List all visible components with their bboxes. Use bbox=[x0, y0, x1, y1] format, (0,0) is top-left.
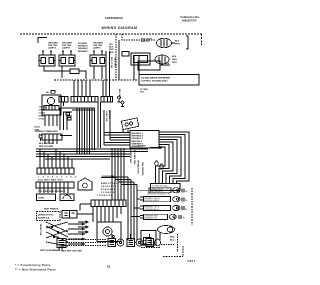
timer connector strip bbox=[42, 134, 62, 144]
harness dashed leaders bbox=[66, 240, 107, 246]
wires to door area bbox=[98, 102, 101, 148]
svg-text:TO MTR: TO MTR bbox=[138, 146, 146, 148]
svg-text:ORG: ORG bbox=[172, 59, 177, 61]
svg-text:CTRL: CTRL bbox=[34, 130, 40, 132]
svg-text:BLU: BLU bbox=[170, 240, 175, 242]
bus drop wires bbox=[40, 149, 72, 168]
door harness connector pair 2 bbox=[127, 234, 143, 247]
mullion dashed rail bbox=[54, 79, 137, 81]
right lateral bundle bbox=[128, 177, 137, 240]
svg-text:K T 4 2 5 8 6 3: K T 4 2 5 8 6 3 bbox=[101, 188, 116, 191]
svg-text:WHT/BLK VIO: WHT/BLK VIO bbox=[137, 160, 139, 174]
svg-text:L K D G L N T 1: L K D G L N T 1 bbox=[101, 186, 117, 188]
harness connector box right bbox=[151, 184, 181, 191]
svg-text:BLK WHT RED ORG: BLK WHT RED ORG bbox=[38, 180, 63, 182]
svg-text:RED/YEL 4: RED/YEL 4 bbox=[132, 140, 144, 143]
dashed wire below valve bbox=[141, 247, 160, 249]
splice block left bbox=[59, 97, 68, 107]
terminal strip 2 bbox=[36, 182, 74, 188]
junction arrow marks bbox=[78, 221, 88, 233]
fresh food lamp assembly bbox=[90, 51, 106, 66]
svg-text:0801: 0801 bbox=[188, 260, 196, 263]
below-chain tick labels bbox=[62, 251, 82, 253]
svg-text:SUPER ICE: SUPER ICE bbox=[38, 218, 50, 220]
svg-text:FRS26ZRFDA: FRS26ZRFDA bbox=[105, 16, 123, 20]
condenser fan motor bbox=[155, 55, 169, 64]
svg-text:2 WHT: 2 WHT bbox=[39, 110, 46, 112]
svg-text:SELECTOR: SELECTOR bbox=[39, 224, 41, 236]
svg-text:LAMP A: LAMP A bbox=[48, 47, 56, 50]
start relay housing bbox=[78, 178, 92, 190]
svg-text:BLK WHT: BLK WHT bbox=[118, 89, 120, 99]
water valve assembly bbox=[158, 226, 175, 241]
defrost heater box bbox=[131, 53, 150, 65]
defrost timer assembly bbox=[42, 95, 61, 110]
evaporator fan motor bbox=[157, 38, 176, 48]
terminal board bbox=[130, 131, 159, 149]
svg-text:RED/YEL BLK: RED/YEL BLK bbox=[150, 191, 163, 193]
svg-text:4 RED: 4 RED bbox=[39, 115, 46, 118]
connector row 1 bbox=[141, 188, 188, 194]
connector row 4 bbox=[140, 214, 186, 220]
svg-text:TAN GRN/YEL: TAN GRN/YEL bbox=[141, 162, 144, 177]
svg-text:LAMP C: LAMP C bbox=[93, 47, 101, 50]
svg-text:5995357704: 5995357704 bbox=[182, 19, 197, 23]
terminal strip 1 bbox=[37, 168, 74, 174]
wires rail to connector strips bbox=[74, 80, 90, 96]
chain tail dashes bbox=[161, 244, 174, 246]
power cord box bbox=[37, 194, 56, 201]
pin comb bbox=[101, 176, 117, 178]
lateral stubs to connector rows bbox=[131, 190, 141, 216]
freezer lamp assembly 1 bbox=[39, 51, 55, 66]
connector strip B bbox=[101, 97, 113, 103]
water pump housing bbox=[97, 222, 121, 242]
alarm buzzer box bbox=[60, 194, 74, 201]
svg-text:BLK RED ORG: BLK RED ORG bbox=[133, 150, 135, 165]
svg-text:LT GRN ORG BLK: LT GRN ORG BLK bbox=[152, 186, 168, 188]
svg-text:CORD: CORD bbox=[38, 198, 45, 200]
svg-text:BLK WHT ORG: BLK WHT ORG bbox=[39, 143, 54, 145]
svg-text:B W R O Y G N L: B W R O Y G N L bbox=[101, 183, 118, 185]
bundle lateral bends bbox=[112, 177, 137, 185]
svg-text:SWITCH: SWITCH bbox=[141, 41, 150, 43]
svg-text:FRZ LT SW: FRZ LT SW bbox=[110, 57, 112, 68]
water valve body bbox=[141, 231, 156, 246]
connector row 2 bbox=[140, 197, 188, 203]
svg-text:FAST FREEZE: FAST FREEZE bbox=[44, 208, 59, 211]
right boundary dashed wire bbox=[191, 188, 193, 225]
harness connector strip C bbox=[91, 200, 126, 207]
cabinet top dashed boundary wire bbox=[20, 33, 202, 35]
svg-text:BLK WHT: BLK WHT bbox=[114, 58, 116, 68]
svg-text:WIRING DIAGRAM: WIRING DIAGRAM bbox=[102, 26, 138, 30]
svg-text:BLK WHT ORG RED: BLK WHT ORG RED bbox=[62, 251, 82, 253]
svg-text:BLK: BLK bbox=[172, 56, 177, 58]
svg-text:** = Non-Illustrated Parts: ** = Non-Illustrated Parts bbox=[15, 267, 56, 271]
svg-text:ORG/RED BLU G: ORG/RED BLU G bbox=[145, 209, 161, 211]
svg-text:1 2 3 4 5 6 7 8 9: 1 2 3 4 5 6 7 8 9 bbox=[97, 194, 113, 197]
harness bundle verticals bbox=[77, 108, 95, 154]
terminal board fanout wires bbox=[159, 132, 189, 184]
svg-text:GRN/WHT WHT/BLK YEL: GRN/WHT WHT/BLK YEL bbox=[147, 193, 171, 195]
bundle top tie bbox=[60, 108, 95, 136]
svg-text:CONTROL HOUSING ASSY: CONTROL HOUSING ASSY bbox=[141, 80, 168, 83]
connector strip A bbox=[71, 97, 98, 103]
connector row 3 bbox=[140, 205, 188, 211]
wire to evaporator fan bbox=[122, 34, 156, 40]
svg-text:21: 21 bbox=[107, 265, 111, 269]
compressor wire list bbox=[101, 183, 118, 194]
svg-text:1 2 3 4 5 6 7 8 9: 1 2 3 4 5 6 7 8 9 bbox=[38, 176, 78, 179]
svg-text:LIGHT SW: LIGHT SW bbox=[105, 111, 107, 121]
svg-text:COLD: COLD bbox=[34, 127, 40, 129]
inline splice 1 bbox=[155, 161, 158, 166]
svg-text:WHT: WHT bbox=[175, 44, 180, 46]
inline connector cluster left bbox=[55, 237, 66, 251]
ground symbol 1 bbox=[118, 96, 121, 102]
svg-text:1 BLK: 1 BLK bbox=[39, 107, 46, 109]
wire lamp1 to rail bbox=[44, 66, 58, 71]
svg-text:DEFROST HTR: DEFROST HTR bbox=[38, 214, 53, 216]
timer terminal pins bbox=[42, 110, 61, 126]
svg-text:Publication No.: Publication No. bbox=[181, 15, 200, 19]
strip C lead wires down bbox=[93, 207, 121, 223]
wire lamp3 drops bbox=[94, 66, 102, 79]
cabinet right dashed boundary stub bbox=[201, 34, 203, 45]
staircase wires left bbox=[60, 108, 72, 130]
svg-text:RED/WHT: RED/WHT bbox=[78, 51, 88, 53]
wires into terminal board bbox=[104, 133, 130, 146]
door harness connector pair 3 bbox=[146, 234, 161, 247]
svg-text:5 YEL: 5 YEL bbox=[39, 119, 45, 121]
selector switch crossing wires bbox=[46, 222, 85, 246]
main horizontal bus bbox=[36, 149, 148, 159]
fuse link bbox=[58, 69, 86, 79]
ice maker head bbox=[121, 118, 138, 130]
wires from relay box bbox=[77, 204, 93, 214]
defrost thermostat box bbox=[138, 61, 170, 70]
housing outline wires bbox=[122, 51, 129, 56]
freezer lamp assembly 2 bbox=[59, 51, 75, 66]
wire lamp2 drop bbox=[61, 66, 63, 78]
svg-text:1 2 3 4 5 6 7 8: 1 2 3 4 5 6 7 8 bbox=[101, 191, 115, 194]
svg-text:RED: RED bbox=[170, 237, 175, 239]
inline splice 2 bbox=[160, 164, 163, 169]
relay box center bbox=[62, 211, 77, 219]
dispenser control box bbox=[139, 75, 199, 86]
svg-text:BLK/YEL GRN W: BLK/YEL GRN W bbox=[145, 200, 160, 202]
right bundle drops bbox=[112, 148, 124, 200]
wires from freezer section down bbox=[115, 34, 117, 80]
svg-text:SWITCH ASSEMBLY: SWITCH ASSEMBLY bbox=[40, 249, 61, 252]
terminal marks bbox=[66, 113, 69, 116]
dashed drop right bbox=[177, 234, 179, 252]
svg-text:BLK/WHT YEL: BLK/WHT YEL bbox=[145, 218, 157, 220]
svg-text:HARNESS WHT: HARNESS WHT bbox=[129, 148, 132, 164]
svg-text:WHT: WHT bbox=[172, 62, 177, 64]
svg-text:BLK: BLK bbox=[175, 41, 180, 43]
control panel dashed box bbox=[37, 212, 61, 221]
right bracket node bbox=[186, 36, 188, 49]
svg-text:RED YEL BRN: RED YEL BRN bbox=[39, 146, 54, 148]
svg-text:ICE AND WATER DISPENSER: ICE AND WATER DISPENSER bbox=[141, 77, 170, 80]
to-motor arrow bbox=[150, 146, 162, 148]
corner bracket node bbox=[38, 38, 47, 44]
ground symbol 2 bbox=[121, 101, 124, 106]
ice maker stub wires bbox=[123, 129, 128, 134]
svg-text:BLK: BLK bbox=[165, 63, 170, 65]
cold control thermostat bbox=[34, 127, 42, 142]
svg-text:YEL BRN GRN WHT BLK: YEL BRN GRN WHT BLK bbox=[38, 191, 66, 193]
svg-text:3 ORG: 3 ORG bbox=[39, 113, 46, 115]
door harness connector pair 1 bbox=[108, 234, 124, 247]
strip2 pin stubs bbox=[40, 188, 68, 193]
evaporator boundary dashed corner bbox=[163, 246, 183, 257]
svg-text:LAMP B: LAMP B bbox=[62, 47, 70, 50]
